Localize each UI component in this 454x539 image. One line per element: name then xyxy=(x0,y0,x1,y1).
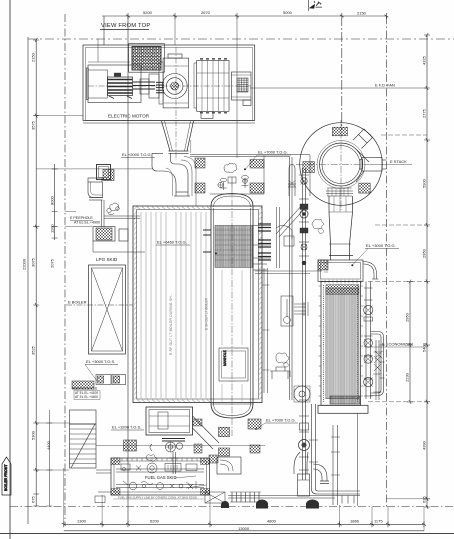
blower circle lower mid xyxy=(294,386,310,402)
svg-text:13000: 13000 xyxy=(238,526,250,531)
hatched pad mid-right xyxy=(318,260,328,270)
economizer E1 outer frame xyxy=(318,282,368,414)
pipe pair down from duct xyxy=(102,200,105,227)
scribble cloud mid xyxy=(312,219,324,228)
stack support pads (hatched) xyxy=(332,127,347,136)
svg-text:4400: 4400 xyxy=(46,440,51,450)
mid platform pipes left of economizer xyxy=(281,296,308,326)
left dimension chain 2 xyxy=(52,164,58,240)
svg-text:5900: 5900 xyxy=(422,178,427,188)
EL +7000 label (upper) xyxy=(244,150,291,171)
svg-text:PEEPHOLE+CLE: PEEPHOLE+CLE xyxy=(72,387,97,391)
diagonal brace pipes xyxy=(276,204,306,239)
BOILER FRONT arrow label xyxy=(2,457,11,495)
E STACK label xyxy=(364,159,412,165)
drum centerline xyxy=(231,188,233,436)
F.D. fan impeller housing xyxy=(156,54,189,108)
svg-text:2670: 2670 xyxy=(201,10,211,15)
main steam valve train vertical xyxy=(299,168,309,480)
tube bundle (dense hatch) xyxy=(215,226,253,268)
svg-text:EL +2000 T.O.G.: EL +2000 T.O.G. xyxy=(122,152,152,157)
svg-text:EL +3200 T.O.S.: EL +3200 T.O.S. xyxy=(112,425,141,430)
svg-text:E RF OUT LT BOILER DURING SH..: E RF OUT LT BOILER DURING SH.. xyxy=(169,294,173,355)
svg-text:VIEW FROM TOP: VIEW FROM TOP xyxy=(101,23,150,29)
drum nozzle stubs left xyxy=(203,230,211,252)
svg-text:EL +3000 T.O.S.: EL +3000 T.O.S. xyxy=(86,359,115,364)
bottom boundary dash-dot xyxy=(10,506,454,508)
inner frame vertical xyxy=(27,37,29,524)
hatched pads right of burner xyxy=(219,427,230,437)
bottom horizontal pipe run xyxy=(228,496,360,499)
E BOILER centerline label xyxy=(66,300,133,306)
svg-text:2775: 2775 xyxy=(422,108,427,118)
svg-text:1100: 1100 xyxy=(49,224,54,233)
scribble cloud lower-left of econ xyxy=(276,353,289,363)
hatched pad left of burner xyxy=(124,440,137,451)
economizer bottom hatched band xyxy=(330,396,360,404)
svg-text:1175: 1175 xyxy=(374,519,383,524)
boiler casing outer wall xyxy=(133,206,262,403)
property line right dash-dot xyxy=(386,16,388,507)
anchor block with X xyxy=(205,492,225,503)
steam line riser pair xyxy=(290,157,293,400)
svg-text:FUEL GAS SKID: FUEL GAS SKID xyxy=(145,475,177,480)
skid leader arrows xyxy=(175,476,206,488)
economizer casing bolt ticks xyxy=(319,286,364,396)
svg-text:EL +3000 T.O.G.: EL +3000 T.O.G. xyxy=(366,243,396,248)
svg-text:EL +6460 T.O.G.: EL +6460 T.O.G. xyxy=(157,240,187,245)
drum lower internal box xyxy=(219,348,248,381)
hatched pad casing lower right xyxy=(193,419,202,426)
svg-text:AT EL EL.+4900: AT EL EL.+4900 xyxy=(74,221,100,225)
svg-text:22000: 22000 xyxy=(22,258,27,270)
svg-text:EL +7000 T.O.G.: EL +7000 T.O.G. xyxy=(266,418,296,423)
vertical pipe pair far right-bottom xyxy=(331,425,340,505)
outlet transition box xyxy=(231,72,251,106)
lower pier frame (hatched) xyxy=(93,227,145,253)
sheet left border xyxy=(9,0,11,539)
svg-text:5200: 5200 xyxy=(150,519,160,524)
stack ladder chute NE xyxy=(353,129,373,162)
vent valves on platform xyxy=(221,176,249,191)
inner dimension chain economizer xyxy=(407,280,413,405)
platform support pads near duct xyxy=(195,158,205,168)
svg-text:5000: 5000 xyxy=(283,10,293,15)
top dimension line xyxy=(102,13,389,19)
gooseneck vent pipe xyxy=(288,165,296,197)
svg-text:LPG SKID: LPG SKID xyxy=(96,257,118,262)
access stair flight xyxy=(70,410,97,468)
fan discharge silencer (panelled box) xyxy=(194,59,229,118)
economizer bypass pipe xyxy=(371,332,385,396)
hatched pads bottom-center xyxy=(248,419,261,429)
condensate pipe pair right-bottom xyxy=(309,404,360,494)
plot extension x104 xyxy=(103,16,105,45)
fuel gas skid frame xyxy=(111,458,210,495)
lower main valve xyxy=(294,423,310,496)
svg-text:8000: 8000 xyxy=(49,195,54,205)
svg-text:3075: 3075 xyxy=(31,257,36,267)
stack S1 outer shell circle xyxy=(300,123,383,206)
downcomer pipes mid xyxy=(262,268,270,393)
svg-text:FUEL GAS SUPPLY LINE BY OTHERS: FUEL GAS SUPPLY LINE BY OTHERS CONN. AT … xyxy=(118,496,197,500)
fan discharge funnel duct xyxy=(162,121,194,153)
sheet bottom border xyxy=(0,533,454,535)
electric motor M1 base frame xyxy=(86,62,141,103)
duct support frame upper xyxy=(97,165,111,180)
fuel gas skid bolt ticks and valves xyxy=(122,458,197,489)
bottom extension verticals xyxy=(64,468,424,531)
lower platform boxes xyxy=(96,375,126,385)
drum nozzle stubs right thin xyxy=(253,226,271,271)
stack centerlines xyxy=(296,120,364,210)
svg-text:E ECONOMIZER: E ECONOMIZER xyxy=(382,342,413,347)
right chain extension horizontals xyxy=(368,135,427,499)
economizer feed piping riser xyxy=(364,282,373,400)
windbox side duct diagonal xyxy=(193,416,220,463)
economizer finned tube bank (dense) xyxy=(324,285,359,402)
svg-text:2075: 2075 xyxy=(49,258,54,268)
svg-text:1866: 1866 xyxy=(350,519,360,524)
inlet duct elbow with flange xyxy=(88,178,103,200)
pipe elbow block right of skid xyxy=(217,457,241,474)
north arrow xyxy=(309,0,323,11)
svg-text:EL +7000 T.O.G.: EL +7000 T.O.G. xyxy=(258,150,288,155)
electric motor M1 body (striped bands) xyxy=(108,73,133,99)
pipes left of skid xyxy=(96,470,111,492)
svg-text:E STACK: E STACK xyxy=(390,159,407,164)
burner gun assembly xyxy=(150,439,185,475)
EL +3000 T.O.G. label xyxy=(365,243,399,249)
svg-text:4325: 4325 xyxy=(422,55,427,65)
svg-text:2150: 2150 xyxy=(31,52,36,62)
E ECONOMIZER label xyxy=(365,342,427,348)
right dimension chain xyxy=(424,33,430,509)
svg-text:E BOILER: E BOILER xyxy=(68,300,87,305)
platform edge line EL+3200 xyxy=(96,444,265,446)
frame top dashed xyxy=(28,38,454,40)
E PEEPHOLE label upper xyxy=(70,216,100,225)
fan centerline cross xyxy=(88,47,251,160)
fan unit enclosure box xyxy=(83,45,255,123)
EL +2000 label top-left of skid xyxy=(121,152,155,158)
scribble cloud near burner xyxy=(146,455,157,462)
drum dome head xyxy=(211,194,253,208)
svg-text:MANHOLE: MANHOLE xyxy=(223,350,227,366)
valve cluster scribble upper-left xyxy=(107,203,119,215)
valve bodies on train xyxy=(300,178,308,266)
pipe pair to casing xyxy=(104,216,140,218)
coupling / bearing pedestal xyxy=(133,74,159,98)
EL +6460 label xyxy=(156,240,217,255)
stack transition duct down xyxy=(329,196,353,260)
E F.D. FAN label and grid line xyxy=(250,83,427,89)
svg-text:E F.D. FAN: E F.D. FAN xyxy=(375,83,395,88)
fuel gas skid internals xyxy=(116,463,204,490)
drum nozzle flanges right xyxy=(258,224,271,260)
casing internal tube lanes xyxy=(141,212,206,398)
economizer second valve branch xyxy=(374,340,382,400)
svg-text:2950: 2950 xyxy=(422,248,427,258)
svg-text:5300: 5300 xyxy=(31,430,36,440)
svg-text:2230: 2230 xyxy=(405,372,410,382)
svg-text:5200: 5200 xyxy=(143,10,153,15)
hatched pier upper xyxy=(103,170,114,181)
economizer inlet plenum box xyxy=(318,256,363,284)
svg-text:675: 675 xyxy=(31,496,36,503)
svg-text:E SH OUT LT BOILER: E SH OUT LT BOILER xyxy=(205,297,209,330)
platform edge below nozzles xyxy=(255,271,322,274)
EL +3200 T.O.S. label xyxy=(111,425,144,431)
title: VIEW FROM TOP xyxy=(100,23,150,30)
property line left dash-dot xyxy=(64,14,66,524)
stack centerline vertical xyxy=(341,16,343,130)
svg-text:BOILER FRONT: BOILER FRONT xyxy=(4,464,8,491)
left chain extension horizontals xyxy=(36,116,152,470)
plenum outlet elbow right xyxy=(363,262,379,280)
svg-text:1300: 1300 xyxy=(77,519,87,524)
left dimension chain 1 xyxy=(33,38,39,506)
svg-text:E PEEPHOLE: E PEEPHOLE xyxy=(70,216,93,220)
svg-text:2150: 2150 xyxy=(357,11,367,16)
note line under fuel gas skid xyxy=(113,496,205,500)
bottom dimension line xyxy=(62,521,426,531)
EL +3000 T.O.S. label xyxy=(85,359,118,381)
LPG vaporizer skid (X-braced) xyxy=(89,265,126,354)
platform small rect mid xyxy=(284,236,294,246)
svg-text:2950: 2950 xyxy=(405,312,410,322)
support row right xyxy=(342,496,354,504)
left chain 3 (stairs) xyxy=(46,410,52,506)
grid extension verticals from top dimension xyxy=(98,16,237,158)
economizer valves V1..V4 xyxy=(364,305,373,386)
elbow with flange lower right xyxy=(313,464,329,484)
dome fittings xyxy=(218,177,248,188)
drum bottom dished head xyxy=(211,404,253,418)
plot west boundary xyxy=(127,16,129,524)
inlet silencer (crosshatched block) xyxy=(129,44,165,73)
stack downcomer duct flange rows xyxy=(326,188,353,196)
scribble cloud platform xyxy=(224,163,237,173)
EL +7000 label (lower) xyxy=(255,418,298,430)
small foundation rect under skid xyxy=(95,496,105,503)
pipe support stands row left xyxy=(230,492,261,502)
fuel gas skid corner pads xyxy=(111,458,210,495)
svg-text:4800: 4800 xyxy=(267,519,277,524)
FUEL GAS SKID label xyxy=(144,474,177,480)
plenum leader dot xyxy=(351,249,368,267)
riser pipes right of casing xyxy=(277,207,280,268)
duct elbow to windbox xyxy=(152,140,196,206)
svg-text:AT EL EL.+4400: AT EL EL.+4400 xyxy=(75,395,98,399)
boiler shell (drum) side walls xyxy=(211,206,253,404)
stack breeching / test port east xyxy=(356,158,387,183)
lower peephole pier hatched strip xyxy=(72,381,100,400)
svg-text:4390: 4390 xyxy=(422,440,427,450)
platform frame box right of pier xyxy=(119,229,128,241)
bench symbol xyxy=(270,367,290,379)
svg-text:ELECTRIC MOTOR: ELECTRIC MOTOR xyxy=(108,114,150,119)
platform edge lines EL+7000 xyxy=(190,155,310,196)
burner front box xyxy=(146,407,193,435)
svg-text:3525: 3525 xyxy=(31,345,36,355)
svg-text:625: 625 xyxy=(422,496,427,503)
vertical line below economizer xyxy=(356,413,358,506)
foundation blobs xyxy=(221,500,319,509)
svg-text:3575: 3575 xyxy=(31,120,36,130)
casing wall hatch bands xyxy=(134,207,262,403)
